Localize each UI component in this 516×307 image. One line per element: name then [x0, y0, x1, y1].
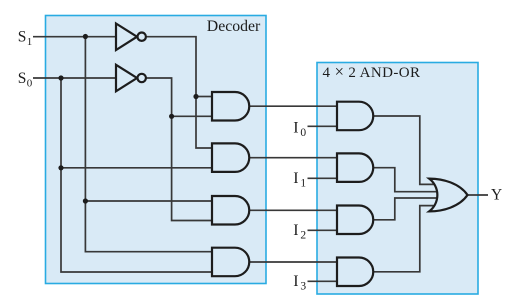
wire AND-OR A output to OR input 1	[373, 116, 434, 184]
AND gate and-or B	[337, 153, 373, 182]
decoder block box	[46, 16, 267, 284]
wire decoder D2 output	[249, 209, 337, 211]
svg-text:3: 3	[300, 280, 306, 292]
svg-text:1: 1	[27, 36, 33, 48]
node junction NOT1 branch	[193, 94, 198, 99]
wire S0 vertical bus	[61, 78, 212, 272]
inverter NOT2	[116, 65, 146, 92]
wire NOT1 output to AND2 top	[146, 37, 212, 148]
AND gate decoder D3	[212, 248, 249, 277]
wire AND-OR D output to OR input 4	[373, 206, 434, 272]
wire I2 lead	[308, 229, 338, 231]
wire NOT2 output to AND3 bottom	[146, 78, 212, 221]
svg-text:I: I	[293, 273, 298, 290]
svg-text:1: 1	[300, 177, 306, 189]
svg-text:S: S	[18, 29, 27, 46]
node junction on S0	[58, 75, 63, 80]
wire OR output to Y	[468, 194, 489, 196]
svg-text:2: 2	[300, 229, 306, 241]
node junction S0 branch	[58, 165, 63, 170]
AND gate decoder D1	[212, 143, 249, 172]
wire NOT1 branch to AND1 top	[196, 96, 212, 98]
svg-text:S: S	[18, 70, 27, 87]
wire decoder D3 output	[249, 261, 337, 263]
wire NOT2 branch to AND1 bottom	[172, 115, 212, 117]
node junction S1 branch	[83, 198, 88, 203]
wire I3 lead	[308, 280, 338, 282]
svg-text:I: I	[293, 170, 298, 187]
AND gate and-or D	[337, 258, 373, 287]
inverter NOT1	[116, 24, 146, 51]
svg-text:4 × 2 AND-OR: 4 × 2 AND-OR	[323, 62, 421, 81]
svg-text:0: 0	[300, 127, 306, 139]
wire S1 lead	[33, 36, 116, 38]
svg-text:I: I	[293, 222, 298, 239]
wire S0 branch to AND2 bottom	[61, 167, 212, 169]
AND gate and-or A	[337, 102, 373, 131]
wire decoder D0 output	[249, 105, 337, 107]
OR gate	[429, 179, 467, 212]
AND gate decoder D2	[212, 196, 249, 225]
svg-text:0: 0	[27, 77, 33, 89]
svg-text:Decoder: Decoder	[207, 18, 261, 35]
node junction NOT2 branch	[169, 114, 174, 119]
wire I1 lead	[308, 177, 338, 179]
svg-text:I: I	[293, 120, 298, 137]
wire AND-OR B output to OR input 2	[373, 168, 437, 192]
wire decoder D1 output	[249, 157, 337, 159]
4x2 AND-OR block box	[317, 63, 478, 295]
wire S1 vertical bus	[85, 37, 212, 252]
svg-text:Y: Y	[491, 186, 502, 203]
AND gate decoder D0	[212, 92, 249, 121]
wire S0 lead	[33, 77, 116, 79]
wire AND-OR C output to OR input 3	[373, 198, 438, 220]
AND gate and-or C	[337, 206, 373, 235]
wire S1 branch to AND3 top	[85, 200, 212, 202]
wire I0 lead	[308, 125, 338, 127]
node junction on S1	[83, 34, 88, 39]
